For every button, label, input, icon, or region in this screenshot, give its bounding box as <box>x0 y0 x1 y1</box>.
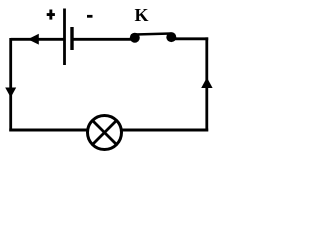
wire from switch to top-right corner <box>172 37 208 40</box>
switch K right contact dot <box>166 32 176 42</box>
lamp L1 cross stroke NW-SE <box>93 121 117 145</box>
label - (negative terminal) <box>87 15 93 18</box>
lamp L1 circle <box>88 116 122 150</box>
wire right vertical <box>205 37 208 131</box>
battery B1 negative plate (short thick) <box>70 27 73 50</box>
wire bottom-right segment (lamp to corner) <box>122 129 209 132</box>
lamp L1 cross stroke NE-SW <box>93 121 117 145</box>
wire left vertical <box>9 38 12 131</box>
wire top-left segment (corner to battery + plate) <box>11 38 64 41</box>
wire bottom-left segment (corner to lamp) <box>9 129 87 132</box>
switch K blade <box>135 34 171 35</box>
label + (positive terminal) <box>47 10 55 20</box>
arrowhead on left wire pointing down <box>5 88 16 98</box>
arrowhead on right wire pointing up <box>201 78 212 89</box>
battery B1 positive plate (long) <box>63 9 66 66</box>
switch K left contact dot <box>130 33 140 43</box>
wire top-right segment (battery - plate to switch) <box>72 38 133 41</box>
arrowhead on top wire pointing left <box>28 34 39 45</box>
svg-text:K: K <box>134 5 148 25</box>
